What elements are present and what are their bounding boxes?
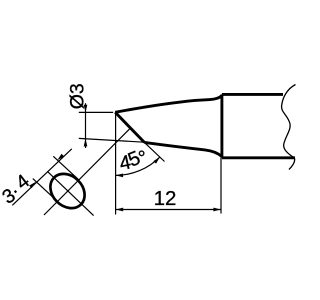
label 45deg bbox=[117, 146, 153, 175]
dim3.4 dimension line bbox=[12, 149, 72, 206]
dim12 arrow right bbox=[213, 208, 221, 212]
dim3.4 arrow upper pointing SW bbox=[56, 154, 64, 162]
svg-text:Ø3: Ø3 bbox=[66, 83, 88, 109]
tip outline: shaft top bbox=[222, 93, 283, 96]
dim12 dimension line bbox=[116, 209, 221, 211]
label 3.4 bbox=[0, 170, 34, 209]
dia3 arrow up bbox=[84, 139, 88, 147]
dim12 right extension line bbox=[220, 158, 222, 214]
dia3 bottom extension line bbox=[79, 138, 144, 142]
45deg arc bbox=[116, 157, 161, 176]
dim3.4 arrow lower pointing NE bbox=[29, 180, 37, 188]
bevel face centerline 45deg bbox=[44, 128, 130, 215]
svg-text:12: 12 bbox=[154, 187, 177, 210]
dim12 arrow left bbox=[116, 208, 124, 212]
tip outline: cone bottom edge bbox=[144, 142, 222, 156]
bevel face ellipse bbox=[43, 167, 91, 215]
dim3.4 extension line upper bbox=[53, 156, 79, 180]
tip outline: collar vertical bbox=[220, 94, 223, 157]
tip outline: bevel edge 45deg bbox=[115, 112, 144, 142]
dia3 dimension line vertical bbox=[85, 103, 87, 148]
dia3 arrow down bbox=[84, 105, 88, 113]
tip outline: cone top edge bbox=[115, 96, 222, 113]
tip outline: shaft bottom bbox=[222, 156, 295, 159]
bevel extension thin line bbox=[144, 142, 164, 161]
bevel face cross line bbox=[47, 171, 93, 215]
apex vertical extension line bbox=[115, 112, 117, 214]
45deg arc arrow right bbox=[153, 156, 161, 164]
shaft break wavy line bbox=[282, 85, 296, 170]
dia3 top extension line bbox=[79, 111, 113, 113]
45deg arc arrow left bbox=[116, 174, 124, 178]
dim3.4 extension line lower bbox=[33, 179, 58, 202]
